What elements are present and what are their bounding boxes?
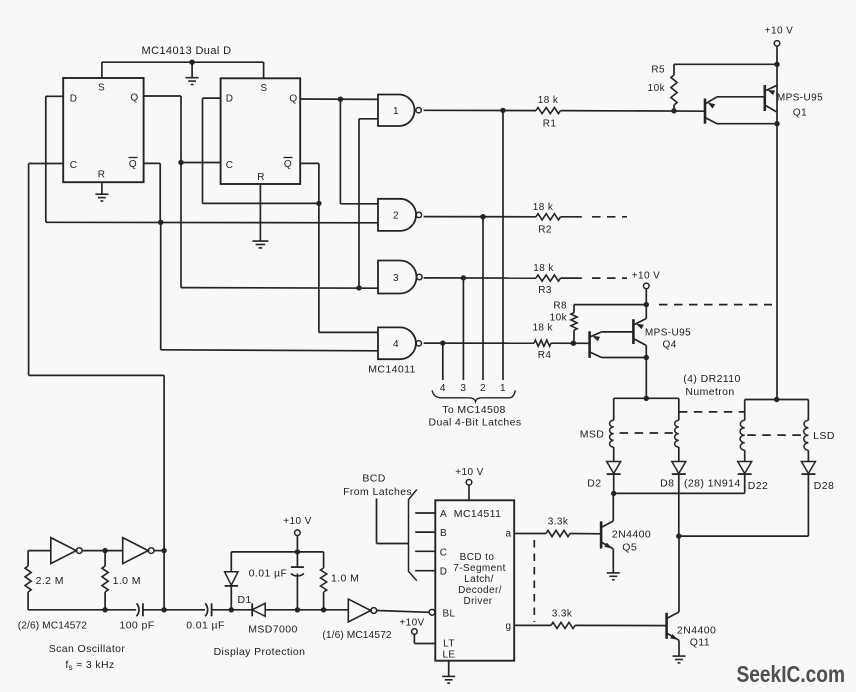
svg-text:3: 3 [393, 273, 399, 284]
svg-text:MC14011: MC14011 [368, 364, 416, 376]
svg-text:D28: D28 [814, 480, 834, 492]
svg-text:18 k: 18 k [533, 263, 554, 274]
svg-text:S: S [260, 83, 267, 94]
svg-text:MPS-U95: MPS-U95 [645, 327, 691, 338]
node feedback bottom junction [161, 607, 166, 612]
svg-text:7-Segment: 7-Segment [453, 563, 506, 574]
label +10V over 14511 [455, 467, 483, 478]
wire to inv3 [297, 609, 348, 611]
label (2/6) MC14572 [18, 621, 87, 632]
svg-text:g: g [506, 621, 512, 632]
pin label B [440, 528, 447, 539]
label (4) DR2110 [683, 373, 741, 385]
svg-text:3.3k: 3.3k [552, 609, 573, 620]
node set-line ground junction [189, 60, 194, 65]
label BCD [362, 473, 385, 485]
node Q4 collector junction [644, 355, 649, 360]
node R5 top junction [774, 62, 779, 67]
node U1B Q branch junction [338, 97, 343, 102]
label 0.01 uF coupling [186, 620, 225, 632]
wire a to 3.3k [514, 533, 546, 535]
wire Q5 emitter to ground [612, 549, 614, 573]
svg-text:4: 4 [440, 383, 446, 394]
label 1.0 M osc [113, 575, 141, 587]
wire U1A C to oscillator [29, 164, 165, 610]
wire U1A Q to gate3 input [181, 287, 378, 290]
resistor 1.0M protection [321, 552, 327, 610]
svg-text:2.2 M: 2.2 M [36, 575, 64, 587]
svg-text:2N4400: 2N4400 [677, 624, 716, 636]
svg-text:Scan Oscillator: Scan Oscillator [49, 643, 126, 655]
transistor Q1 MPS-U95 darlington [705, 85, 823, 124]
svg-text:2N4400: 2N4400 [612, 528, 651, 540]
svg-text:1.0 M: 1.0 M [331, 573, 359, 585]
svg-text:1: 1 [393, 106, 399, 117]
node Q1 collector junction [774, 121, 779, 126]
node D8-Q11 junction [676, 533, 681, 538]
pin B line [415, 531, 435, 533]
svg-text:R1: R1 [543, 119, 557, 130]
svg-text:SeekIC.com: SeekIC.com [737, 661, 846, 687]
resistor R8 10k [550, 301, 577, 344]
svg-text:Driver: Driver [463, 596, 492, 607]
svg-text:BCD to: BCD to [460, 552, 495, 563]
wire gate3 output [424, 277, 536, 279]
svg-text:2: 2 [393, 211, 399, 222]
label (28) 1N914 [684, 478, 741, 490]
svg-text:R8: R8 [553, 301, 567, 312]
ground U1B R [252, 241, 268, 248]
wire dashed supply to rail [659, 304, 772, 306]
wire inv3 to BL [377, 611, 429, 613]
svg-text:+10 V: +10 V [632, 271, 660, 282]
svg-text:R3: R3 [538, 285, 552, 296]
pin label LT [443, 639, 455, 650]
wire Q4 collector to numetron [645, 358, 647, 399]
wire dashed MSD-LSD [679, 411, 745, 413]
label Driver [463, 596, 492, 607]
wire protection top [231, 551, 323, 553]
node 1.0M tap [102, 548, 107, 553]
power +10V terminal mid [644, 283, 650, 289]
wire scan line 2 [482, 217, 484, 380]
wire D8 cathode down [678, 474, 680, 536]
nand gate 3 MC14011 [378, 261, 422, 294]
svg-text:LE: LE [442, 650, 455, 661]
svg-text:D: D [440, 567, 448, 578]
resistor 3.3k Q11 base [551, 609, 575, 629]
resistor R4 18k [532, 323, 553, 362]
svg-text:+10 V: +10 V [283, 516, 311, 527]
resistor R1 18k [536, 95, 561, 130]
wire U1A S to U1B S set line [102, 62, 264, 78]
bracket BCD inputs [409, 490, 417, 581]
svg-text:To MC14508: To MC14508 [442, 404, 506, 416]
ic U2 MC14511 body [435, 500, 514, 660]
wire +10V stem protection [296, 536, 298, 552]
svg-text:MSD: MSD [580, 429, 605, 441]
pin label C [440, 547, 448, 558]
label 7-Segment [453, 563, 506, 574]
svg-text:+10 V: +10 V [765, 26, 793, 37]
node osc output junction [161, 548, 166, 553]
label Latch/ [464, 574, 494, 585]
node U1B Qbar-D junction [316, 201, 321, 206]
capacitor 0.01 uF bypass [291, 552, 304, 610]
label MC14011 [368, 364, 416, 376]
svg-text:Q11: Q11 [690, 636, 710, 648]
svg-text:D: D [70, 94, 78, 105]
svg-text:4: 4 [393, 339, 399, 350]
svg-text:C: C [226, 160, 234, 171]
pin number 1 [500, 383, 506, 394]
node LSD feed junction [774, 397, 779, 402]
svg-text:BL: BL [442, 609, 455, 620]
label 1.0 M protection [331, 573, 359, 585]
wire U1B Qbar to node [300, 163, 319, 203]
wire +10V to node [645, 289, 647, 319]
svg-text:(28) 1N914: (28) 1N914 [684, 478, 741, 490]
wire U1A Qbar to node [144, 163, 161, 222]
svg-text:(2/6) MC14572: (2/6) MC14572 [18, 621, 87, 632]
label (1/6) MC14572 [322, 630, 391, 641]
svg-text:2: 2 [480, 383, 486, 394]
ground set line [186, 62, 199, 84]
svg-text:D2: D2 [587, 478, 601, 490]
node D1 junction [229, 607, 234, 612]
wire scan line 3 [462, 278, 464, 380]
wire U1B Q to gate2 input A [340, 99, 378, 204]
pin A line [415, 512, 435, 514]
svg-text:3: 3 [460, 383, 466, 394]
pin C line [415, 550, 435, 552]
pin label LE [442, 650, 455, 661]
power +10V terminal 14511 [466, 480, 472, 486]
wire R3 to segment c (dashed) [561, 277, 628, 279]
svg-text:fs ≈ 3 kHz: fs ≈ 3 kHz [65, 659, 114, 672]
wire scan line 4 [442, 343, 444, 380]
svg-text:18 k: 18 k [532, 323, 553, 334]
power +10V terminal protection [295, 530, 301, 536]
power +10V top right [765, 26, 793, 47]
wire BCD from latches [377, 499, 409, 544]
svg-text:10k: 10k [648, 83, 666, 94]
wire D2 cathode [613, 474, 615, 493]
nand gate 2 MC14011 [378, 199, 422, 231]
wire to coupling cap [164, 609, 205, 611]
svg-text:MC14013 Dual D: MC14013 Dual D [142, 45, 232, 57]
ground 14511 [442, 661, 455, 684]
svg-text:S: S [98, 83, 105, 94]
label To MC14508 [442, 404, 506, 416]
wire U1B D feedback [203, 98, 319, 203]
resistor R5 10k [648, 64, 677, 110]
ground Q11 [673, 656, 686, 663]
svg-text:Q: Q [130, 93, 138, 104]
wire U1A Qbar branch to gate4 input B [161, 222, 378, 350]
svg-text:Q: Q [289, 94, 297, 105]
svg-text:Numetron: Numetron [685, 386, 734, 398]
transistor Q5 2N4400 [601, 493, 651, 553]
svg-text:R: R [98, 170, 106, 181]
resistor 1.0M osc [102, 551, 108, 610]
label +10V at LT [399, 618, 424, 629]
svg-text:Q: Q [129, 159, 137, 170]
node R4-R8 junction [571, 341, 576, 346]
wire U1B Q to gate1 input A [300, 98, 378, 100]
nand gate 4 MC14011 [378, 327, 421, 359]
svg-text:MPS-U95: MPS-U95 [777, 93, 823, 104]
svg-text:D8: D8 [660, 478, 674, 490]
svg-text:Q4: Q4 [663, 339, 677, 350]
wire inv1 out to inv2 in [82, 550, 122, 552]
svg-text:10k: 10k [550, 313, 568, 324]
svg-text:100 pF: 100 pF [119, 620, 154, 632]
svg-text:R4: R4 [538, 350, 552, 361]
node gate1-gate3 tie junction [356, 285, 361, 290]
node D2-D22 junction [611, 491, 616, 496]
label From Latches [343, 486, 412, 498]
numetron LSD top bus [745, 399, 809, 401]
label fs = 3 kHz [65, 659, 114, 672]
svg-text:(4) DR2110: (4) DR2110 [683, 373, 741, 385]
wire U1B Qbar to gate4 input A [319, 203, 378, 332]
diode D8 1N914 [660, 462, 686, 490]
label MC14511 [454, 508, 502, 520]
svg-text:a: a [506, 529, 512, 540]
inductor filament MSD right [675, 398, 679, 461]
label Decoder/ [458, 585, 502, 596]
svg-text:MC14511: MC14511 [454, 508, 502, 520]
inductor filament LSD left [740, 400, 745, 462]
diode D22 1N914 [738, 462, 769, 493]
wire +10V to 14511 [468, 485, 470, 500]
flip-flop U1A MC14013 body [63, 78, 143, 182]
wire +10V to LT pin [414, 634, 435, 643]
label +10V mid [632, 271, 660, 282]
inductor filament LSD right [804, 400, 809, 462]
pin label g [506, 621, 512, 632]
wire R8 top [574, 304, 646, 306]
node Q4 supply junction [644, 302, 649, 307]
wire U1A Q to U1B C [144, 96, 221, 163]
wire R5 top [674, 63, 777, 65]
svg-text:BCD: BCD [362, 473, 385, 485]
label MC14013 Dual D [142, 45, 232, 57]
node U1A Q branch junction [178, 160, 183, 165]
power +10V terminal LT [412, 629, 418, 635]
wire g to 3.3k [514, 624, 551, 626]
node U1A Qbar-D junction [158, 220, 163, 225]
svg-text:From Latches: From Latches [343, 486, 412, 498]
svg-text:MSD7000: MSD7000 [248, 624, 298, 636]
label 100 pF [119, 620, 154, 632]
svg-text:Latch/: Latch/ [464, 574, 494, 585]
wire dashed MSD segments [620, 432, 673, 434]
resistor R2 18k [533, 202, 561, 236]
svg-text:Q1: Q1 [793, 108, 807, 119]
svg-text:0.01 µF: 0.01 µF [249, 568, 288, 580]
label +10V protection [283, 516, 311, 527]
svg-text:Q5: Q5 [622, 541, 637, 553]
label LSD [813, 430, 835, 442]
wire U1B R to ground [259, 184, 261, 241]
wire cap to feedback node [143, 609, 164, 611]
wire tie to gate1 input B [359, 119, 378, 288]
node 1.0M bottom [102, 607, 107, 612]
svg-text:1: 1 [500, 383, 506, 394]
pin number 3 [460, 383, 466, 394]
svg-text:Dual 4-Bit Latches: Dual 4-Bit Latches [429, 416, 522, 428]
wire D22 to D2 bus [614, 474, 745, 493]
label Scan Oscillator [49, 643, 126, 655]
wire scan line 1 [502, 110, 504, 380]
node scan line 3 junction [461, 275, 466, 280]
wire cap to D1 node [212, 609, 232, 611]
svg-text:(1/6) MC14572: (1/6) MC14572 [322, 630, 391, 641]
label Display Protection [214, 646, 306, 658]
wire dashed segments b-f [533, 540, 535, 622]
capacitor 0.01 uF coupling [205, 603, 211, 616]
transistor Q4 MPS-U95 darlington [590, 319, 692, 358]
resistor 3.3k Q5 base [546, 517, 570, 537]
wire Q11 emitter to ground [678, 640, 680, 656]
svg-text:LT: LT [443, 639, 455, 650]
wire inv2 out to feedback [154, 550, 164, 552]
nand gate 1 MC14011 [378, 95, 421, 127]
wire gate2 output [424, 216, 536, 218]
diode D2 1N914 [587, 462, 620, 490]
node 1.0M protection bottom [321, 607, 326, 612]
wire U1A Qbar-D to gate2 input B [46, 221, 378, 224]
wire D28 to D8 bus [679, 474, 809, 536]
inverter 2/6 MC14572 second [123, 538, 154, 564]
svg-text:C: C [70, 160, 78, 171]
pin BL bubble [429, 609, 435, 615]
watermark SeekIC.com [737, 661, 846, 687]
svg-text:B: B [440, 528, 447, 539]
inverter 2/6 MC14572 first [51, 538, 82, 564]
wire R2 to segment b (dashed) [561, 216, 628, 218]
svg-text:Decoder/: Decoder/ [458, 585, 502, 596]
node scan line 2 junction [480, 214, 485, 219]
wire 3.3k to Q11 base [575, 624, 667, 626]
ground Q5 [607, 573, 620, 580]
svg-text:+10V: +10V [399, 618, 424, 629]
diode MSD7000 [231, 603, 297, 616]
inductor filament MSD left [610, 398, 614, 461]
inverter 1/6 MC14572 [348, 599, 376, 622]
svg-text:3.3k: 3.3k [548, 517, 569, 528]
flip-flop U1B MC14013 body [221, 78, 301, 184]
pin number 4 [440, 383, 446, 394]
svg-text:R5: R5 [651, 65, 665, 76]
wire osc bottom [28, 609, 136, 611]
svg-text:C: C [440, 547, 448, 558]
svg-text:Q: Q [284, 159, 292, 170]
pin label BL [442, 609, 455, 620]
node bypass bottom [295, 607, 300, 612]
svg-text:1.0 M: 1.0 M [113, 575, 141, 587]
diode D1 [225, 552, 238, 610]
wire U1A Q down-branch [180, 163, 182, 288]
resistor 2.2M [25, 551, 31, 610]
ground U1A R [95, 182, 108, 201]
svg-text:D1: D1 [238, 594, 252, 606]
wire +10V rail [776, 46, 778, 399]
svg-text:18 k: 18 k [538, 95, 559, 106]
pin label a [506, 529, 512, 540]
label Dual 4-Bit Latches [429, 416, 522, 428]
svg-text:18 k: 18 k [533, 202, 554, 213]
svg-text:+10 V: +10 V [455, 467, 483, 478]
label Numetron [685, 386, 734, 398]
label MSD [580, 429, 605, 441]
label 2.2 M [36, 575, 64, 587]
wire gate4 output to Q4 base [424, 342, 590, 344]
node MSD feed junction [644, 396, 649, 401]
svg-text:R: R [257, 172, 265, 183]
capacitor 100 pF [137, 603, 143, 616]
numetron MSD top bus [614, 397, 679, 399]
node scan line 1 junction [500, 108, 505, 113]
label MSD7000 [248, 624, 298, 636]
svg-text:D22: D22 [748, 480, 768, 492]
pin label A [440, 509, 447, 520]
diode D28 1N914 [801, 462, 834, 493]
node R1-R5-Q1 base junction [671, 108, 676, 113]
wire gate1 output to Q1 base [424, 109, 705, 112]
transistor Q11 2N4400 [667, 536, 717, 648]
wire 3.3k to Q5 base [570, 533, 601, 535]
svg-text:A: A [440, 509, 447, 520]
svg-text:D: D [226, 94, 234, 105]
svg-text:0.01 µF: 0.01 µF [186, 620, 225, 632]
svg-text:R2: R2 [538, 225, 552, 236]
wire dashed LSD segments [747, 434, 802, 436]
label BCD to [460, 552, 495, 563]
node scan line 4 junction [440, 340, 445, 345]
svg-text:LSD: LSD [813, 430, 835, 442]
pin label D [440, 567, 448, 578]
wire osc input [28, 550, 51, 552]
resistor R3 18k [533, 263, 560, 296]
label D1 [238, 594, 252, 606]
label 0.01 uF bypass [249, 568, 288, 580]
brace to latches [432, 390, 515, 401]
pin number 2 [480, 383, 486, 394]
svg-text:Display Protection: Display Protection [214, 646, 306, 658]
pin D line [415, 570, 435, 572]
node protection +10V junction [295, 549, 300, 554]
wire U1A D feedback [46, 96, 63, 222]
